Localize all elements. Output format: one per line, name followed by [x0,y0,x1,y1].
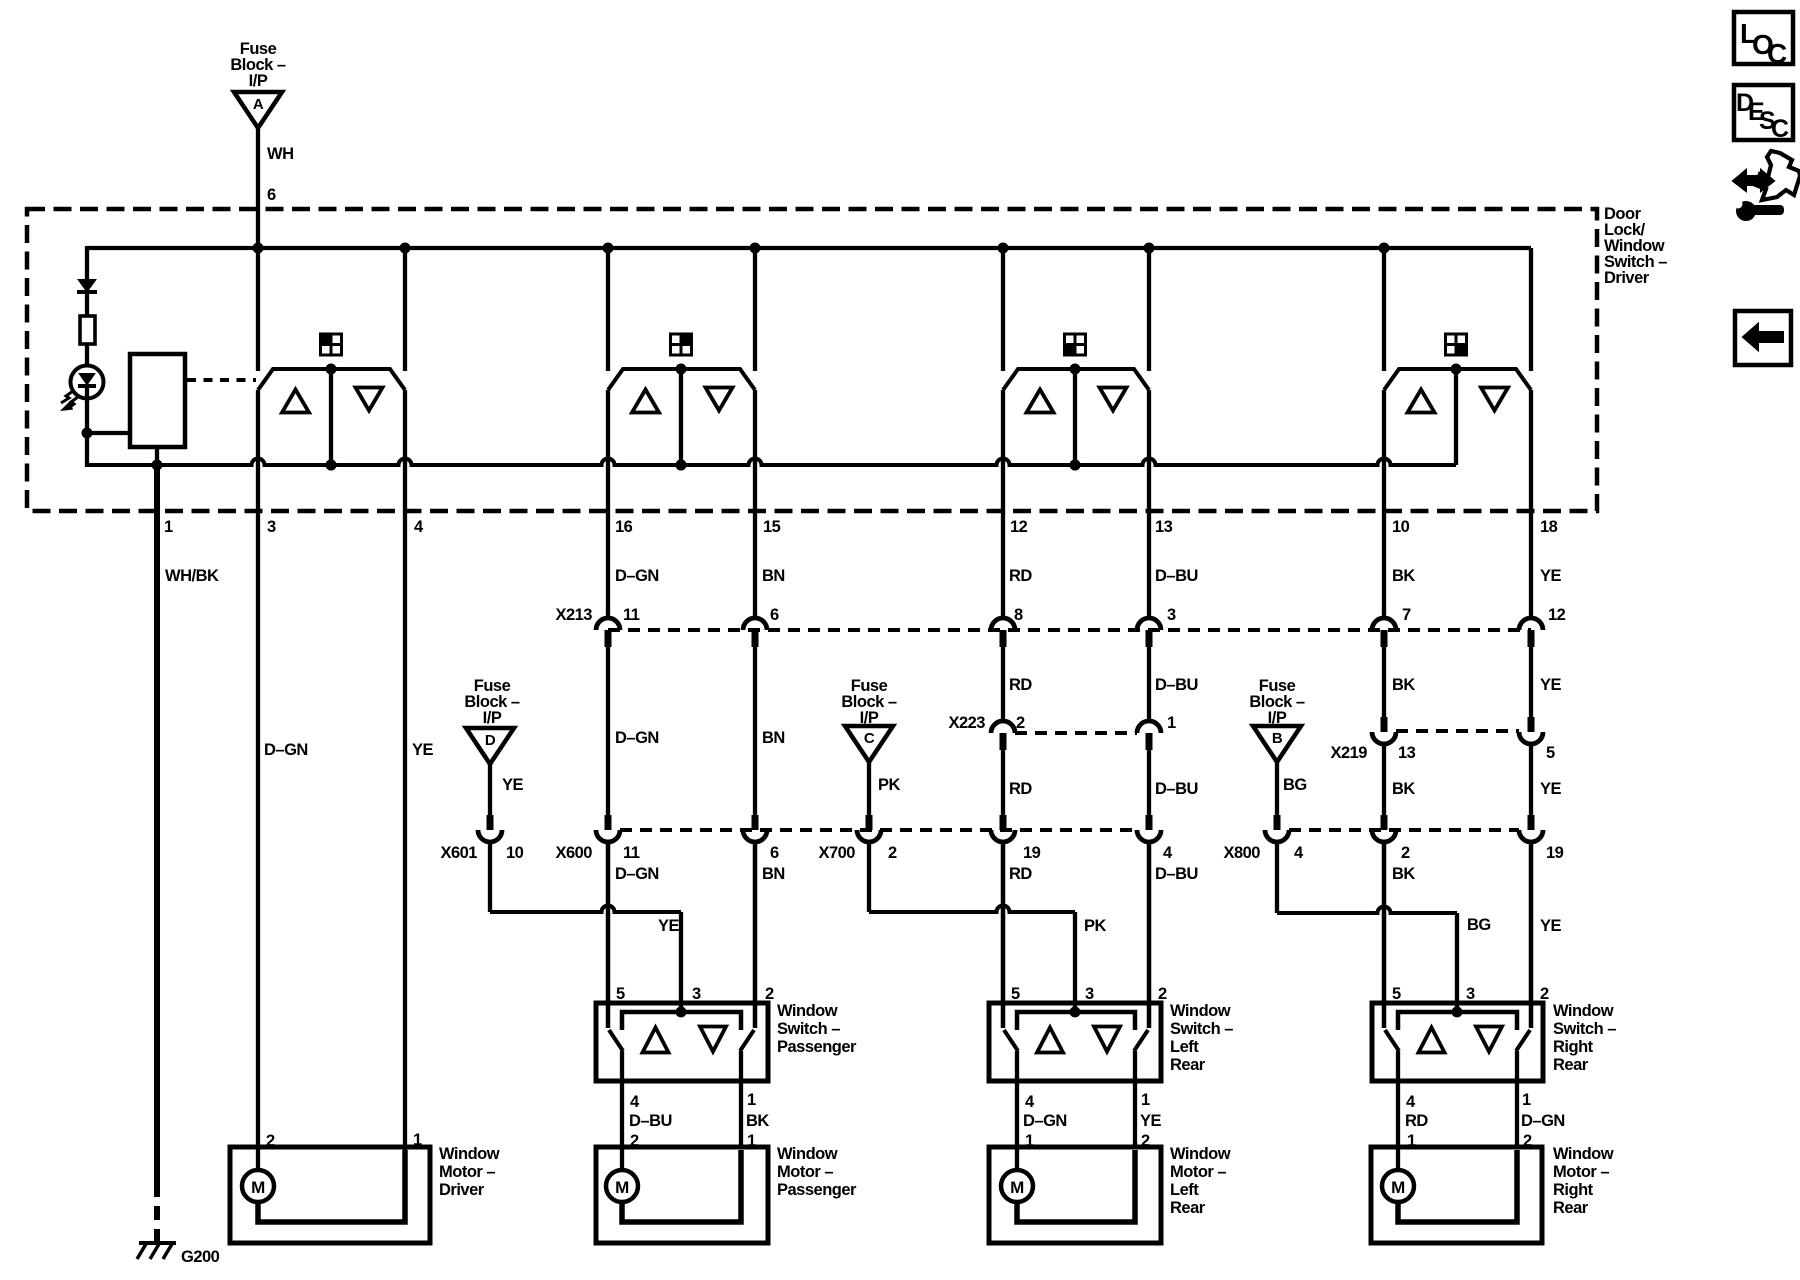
svg-text:RD: RD [1009,780,1032,798]
svg-text:BN: BN [762,729,785,747]
svg-text:Right: Right [1553,1038,1594,1056]
svg-text:D–BU: D–BU [1155,567,1198,585]
wire pin16 D-GN [606,390,610,619]
window motor box [989,1147,1161,1243]
svg-text:C: C [864,730,875,747]
connector X219 pin 13 [1381,717,1388,732]
wire WH pin 6 from fuse A [256,128,260,250]
ground G200 [139,1241,176,1245]
up/down arrows [1037,1028,1063,1053]
connector code square [1065,334,1086,355]
motor symbol M [1001,1170,1033,1202]
svg-text:YE: YE [1540,676,1562,694]
svg-text:5: 5 [616,985,625,1003]
connector X223 pin 1 [1137,721,1161,733]
svg-text:RD: RD [1009,567,1032,585]
svg-text:BK: BK [1392,780,1415,798]
svg-text:4: 4 [1163,844,1173,862]
wire D-GN [606,646,610,816]
fuse symbol C [845,726,893,762]
LOC icon box [1734,12,1793,64]
wire YE [1529,646,1533,717]
resistor [80,316,95,344]
svg-text:Switch –: Switch – [1553,1020,1616,1038]
fuse symbol D [466,728,514,764]
svg-text:X600: X600 [555,844,592,862]
svg-text:11: 11 [623,606,640,624]
svg-text:M: M [251,1178,265,1197]
wire PK elbow to left rear switch pin 3 [867,842,871,912]
svg-text:Left: Left [1170,1181,1199,1199]
power bus wire (top) [87,246,1531,250]
motor internal wiring [1398,1150,1517,1222]
wire BK [1382,744,1386,816]
wire pin12 RD [1001,390,1005,619]
diode [79,280,95,291]
connector X600 pin 6 [752,815,759,830]
svg-text:I/P: I/P [483,709,502,727]
svg-text:BN: BN [762,865,785,883]
svg-text:3: 3 [1167,606,1176,624]
dashed box: Door Lock/Window Switch - Driver [27,209,1597,511]
wire from power bus to switch pins 1003/1149 [1001,248,1005,371]
transfer arrows + wrench icon [1733,151,1800,221]
connector X600 pin 11 [605,815,612,830]
motor internal wiring [258,1150,405,1222]
svg-text:Driver: Driver [1604,269,1650,287]
window motor box [230,1147,430,1243]
svg-text:X800: X800 [1223,844,1260,862]
svg-text:2: 2 [1158,985,1167,1003]
svg-text:D–GN: D–GN [264,741,308,759]
motor symbol M [242,1170,274,1202]
connector X800 pin 4 [1274,815,1281,830]
svg-text:WH/BK: WH/BK [165,567,219,585]
wire D-GN to passenger switch [606,842,610,1028]
svg-text:10: 10 [1392,518,1410,536]
svg-text:16: 16 [615,518,633,536]
svg-text:4: 4 [1406,1093,1416,1111]
connector X219 dashed line [1396,729,1519,733]
svg-text:D–GN: D–GN [1023,1112,1067,1130]
svg-text:Motor –: Motor – [1170,1163,1226,1181]
svg-text:2: 2 [1016,714,1025,732]
connector code square [1446,334,1467,355]
window switch contact block at x=681 [608,369,755,390]
wire to module [87,431,132,435]
connector X800 pin 19 [1528,815,1535,830]
up/down arrows [1419,1028,1445,1053]
svg-text:D–BU: D–BU [629,1112,672,1130]
svg-text:RD: RD [1405,1112,1428,1130]
svg-text:BK: BK [746,1112,769,1130]
svg-text:10: 10 [506,844,524,862]
fuse symbol B [1253,726,1301,762]
svg-text:1: 1 [1522,1091,1531,1109]
svg-text:D–BU: D–BU [1155,865,1198,883]
wire D-BU [1147,749,1151,816]
svg-text:6: 6 [770,606,779,624]
svg-text:19: 19 [1546,844,1564,862]
svg-text:PK: PK [878,776,901,794]
svg-text:2: 2 [1540,985,1549,1003]
connector X800 dashed line [1289,828,1519,832]
svg-text:YE: YE [502,776,524,794]
svg-text:BK: BK [1392,865,1415,883]
connector X219 pin 5 [1528,717,1535,732]
svg-text:15: 15 [763,518,781,536]
svg-text:2: 2 [1523,1132,1532,1150]
window switch box [1372,1003,1543,1081]
motor symbol M [606,1170,638,1202]
svg-text:Rear: Rear [1170,1056,1206,1074]
svg-text:7: 7 [1402,606,1411,624]
svg-text:Passenger: Passenger [777,1038,857,1056]
wire RD [1001,749,1005,816]
window switch contact block at x=1456 [1384,369,1531,390]
svg-text:X213: X213 [555,606,592,624]
svg-text:Motor –: Motor – [439,1163,495,1181]
wire RD to left rear switch [1001,842,1005,1028]
dashed control link to switch [187,378,256,382]
svg-text:19: 19 [1023,844,1041,862]
motor internal wiring [622,1150,741,1222]
output wires to motor [1015,1051,1019,1170]
module output wire [155,447,159,467]
LED arrows [61,391,73,403]
wire D-BU to left rear switch [1147,842,1151,1028]
wire pin1 WH/BK [154,465,160,1183]
switch blades [606,843,610,1028]
window switch contact block at x=1075 [1003,369,1149,390]
svg-text:1: 1 [747,1132,756,1150]
svg-text:BG: BG [1283,776,1307,794]
svg-text:1: 1 [1141,1091,1150,1109]
svg-text:BK: BK [1392,676,1415,694]
svg-text:BG: BG [1467,916,1491,934]
svg-text:M: M [615,1178,629,1197]
svg-text:Window: Window [439,1145,500,1163]
wire BK to right rear switch [1382,842,1386,1028]
wire pin18 YE [1529,390,1533,619]
svg-text:YE: YE [1540,780,1562,798]
wire BN to passenger switch [753,842,757,1028]
svg-text:D–GN: D–GN [615,567,659,585]
svg-text:X601: X601 [440,844,477,862]
svg-text:RD: RD [1009,865,1032,883]
wire YE from fuse D [488,764,492,816]
svg-text:YE: YE [1540,917,1562,935]
svg-text:D–BU: D–BU [1155,676,1198,694]
svg-text:2: 2 [630,1132,639,1150]
svg-text:Switch –: Switch – [1170,1020,1233,1038]
wire from power bus to switch pins 608/755 [606,248,610,371]
wire pin15 BN [753,390,757,619]
wire YE elbow to passenger switch pin 3 [488,842,492,912]
window motor box [1371,1147,1542,1243]
svg-text:M: M [1391,1178,1405,1197]
wire BG from fuse B [1275,762,1279,816]
svg-text:D–BU: D–BU [1155,780,1198,798]
svg-text:18: 18 [1540,518,1558,536]
junction [253,243,264,254]
connector X213 pin 7 [1372,618,1396,630]
svg-text:C: C [1767,38,1787,69]
wire PK from fuse C [867,762,871,816]
svg-text:Passenger: Passenger [777,1181,857,1199]
svg-text:1: 1 [1407,1132,1416,1150]
output wires to motor [620,1051,624,1170]
dashed ground lead [154,1183,160,1245]
wire pin13 D-BU [1147,390,1151,619]
window switch box [989,1003,1161,1081]
connector X601 pin 10 [487,815,494,830]
wire D-BU [1147,646,1151,722]
junction [750,243,761,254]
svg-text:C: C [1771,115,1789,143]
svg-text:Window: Window [777,1002,838,1020]
connector X700 pin 4 [1146,815,1153,830]
wire left branch [85,246,89,281]
svg-text:YE: YE [658,917,680,935]
svg-text:3: 3 [1085,985,1094,1003]
svg-text:1: 1 [1167,714,1176,732]
svg-text:4: 4 [630,1093,640,1111]
svg-text:11: 11 [623,844,640,862]
svg-text:Right: Right [1553,1181,1594,1199]
switch blades [1382,843,1386,1028]
wire pin10 BK [1382,390,1386,619]
svg-text:D–GN: D–GN [615,865,659,883]
wire [85,292,89,316]
svg-text:2: 2 [765,985,774,1003]
wire BN [753,646,757,816]
svg-text:8: 8 [1014,606,1023,624]
svg-text:Rear: Rear [1553,1056,1589,1074]
connector X223 pin 2 [991,721,1015,733]
connector X213 pin 3 [1137,618,1161,630]
junction [152,460,163,471]
output wires to motor [1396,1051,1400,1170]
svg-text:WH: WH [267,145,294,163]
svg-text:Motor –: Motor – [777,1163,833,1181]
svg-text:12: 12 [1010,518,1028,536]
svg-text:Switch –: Switch – [777,1020,840,1038]
svg-text:Rear: Rear [1553,1199,1589,1217]
ground bus wire (bottom, with hops) [87,459,1456,465]
connector X213 pin 6 [743,618,767,630]
junction [998,243,1009,254]
svg-text:5: 5 [1392,985,1401,1003]
svg-text:13: 13 [1155,518,1173,536]
svg-text:Driver: Driver [439,1181,485,1199]
svg-text:PK: PK [1084,917,1107,935]
wire from power bus to switch pins 258/405 [256,248,260,371]
wire BG elbow to right rear switch pin 3 [1275,842,1279,913]
switch common bar [1017,1012,1135,1030]
svg-text:BN: BN [762,567,785,585]
svg-text:Window: Window [1553,1145,1614,1163]
svg-text:3: 3 [1466,985,1475,1003]
back arrow icon box [1735,311,1791,365]
svg-text:M: M [1010,1178,1024,1197]
connector X700 pin 19 [1000,815,1007,830]
svg-text:3: 3 [692,985,701,1003]
LED indicator [71,366,104,399]
svg-text:RD: RD [1009,676,1032,694]
driver electronics module [130,354,185,447]
wire pin4 YE driver [403,390,407,1150]
svg-text:Window: Window [1553,1002,1614,1020]
junction [603,243,614,254]
svg-text:4: 4 [1025,1093,1035,1111]
connector code square [321,334,342,355]
junction [1379,243,1390,254]
svg-text:Left: Left [1170,1038,1199,1056]
wire YE to right rear switch [1529,842,1533,1028]
svg-text:4: 4 [1294,844,1304,862]
svg-text:13: 13 [1398,744,1416,762]
svg-text:12: 12 [1548,606,1566,624]
wire [85,344,89,367]
window motor box [596,1147,768,1243]
svg-text:Window: Window [777,1145,838,1163]
connector X213 dashed line [608,628,1531,632]
svg-text:6: 6 [267,186,276,204]
switch common bar [1398,1012,1517,1030]
svg-text:5: 5 [1011,985,1020,1003]
svg-text:I/P: I/P [249,72,268,90]
svg-text:4: 4 [414,518,424,536]
svg-text:6: 6 [770,844,779,862]
connector X213 pin 11 [596,618,620,630]
svg-text:A: A [253,96,264,113]
up/down arrows [643,1028,669,1053]
svg-text:Motor –: Motor – [1553,1163,1609,1181]
svg-text:Window: Window [1170,1145,1231,1163]
junction [326,460,337,471]
wire from power bus to switch pins 1384/1531 [1382,248,1386,371]
svg-text:2: 2 [266,1132,275,1150]
connector X800 pin 2 [1381,815,1388,830]
svg-text:5: 5 [1546,744,1555,762]
connector X600/X700 dashed line [620,828,1137,832]
svg-text:1: 1 [747,1091,756,1109]
switch blades [1001,843,1005,1028]
svg-text:1: 1 [164,518,173,536]
DESC icon box [1734,85,1793,140]
window switch contact block at x=331 [258,369,405,390]
fuse symbol A [234,92,282,128]
junction [1144,243,1155,254]
window switch box [596,1003,768,1081]
svg-text:2: 2 [1401,844,1410,862]
svg-text:X700: X700 [818,844,855,862]
svg-text:2: 2 [1141,1132,1150,1150]
wire YE [1529,744,1533,816]
svg-text:YE: YE [412,741,434,759]
svg-text:1: 1 [1025,1132,1034,1150]
svg-text:3: 3 [267,518,276,536]
wire pin3 D-GN driver [256,390,260,1170]
svg-text:1: 1 [413,1131,422,1149]
svg-text:Rear: Rear [1170,1199,1206,1217]
junction [82,428,93,439]
motor symbol M [1382,1170,1414,1202]
wire BK [1382,646,1386,717]
svg-text:X223: X223 [948,714,985,732]
connector code square [671,334,692,355]
svg-text:Window: Window [1170,1002,1231,1020]
svg-text:G200: G200 [181,1248,220,1266]
svg-text:D: D [485,732,496,749]
connector X223 dashed line [1015,731,1137,735]
svg-text:2: 2 [888,844,897,862]
svg-text:YE: YE [1140,1112,1162,1130]
wire below LED [85,386,89,467]
svg-text:D–GN: D–GN [1521,1112,1565,1130]
motor internal wiring [1017,1150,1135,1222]
connector X213 pin 12 [1519,618,1543,630]
wire RD [1001,646,1005,722]
connector X700 pin 2 [866,815,873,830]
switch common bar [622,1012,741,1030]
svg-text:YE: YE [1540,567,1562,585]
svg-text:X219: X219 [1330,744,1367,762]
svg-text:B: B [1272,730,1283,747]
svg-text:BK: BK [1392,567,1415,585]
svg-text:D–GN: D–GN [615,729,659,747]
junction [1070,460,1081,471]
connector X213 pin 8 [991,618,1015,630]
junction [400,243,411,254]
junction [676,460,687,471]
